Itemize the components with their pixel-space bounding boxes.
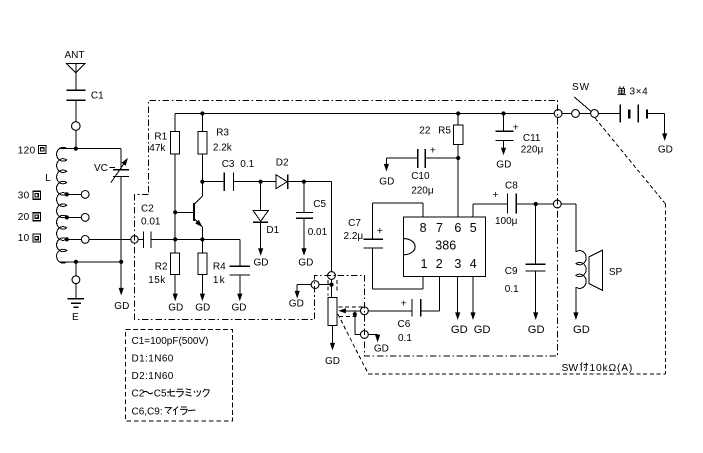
svg-text:220μ: 220μ [411,186,434,197]
svg-text:30: 30 [18,191,30,202]
svg-text:D1: D1 [266,225,279,236]
svg-text:2.2k: 2.2k [213,142,233,153]
svg-text:R4: R4 [213,262,226,273]
svg-text:GD: GD [232,303,247,314]
svg-text:GD: GD [254,258,269,269]
svg-text:GD: GD [573,324,590,336]
svg-text:GD: GD [474,324,491,336]
svg-text:47k: 47k [149,143,166,154]
svg-text:+: + [377,225,383,237]
svg-text:R2: R2 [155,262,168,273]
svg-text:SW: SW [572,82,590,93]
svg-text:GD: GD [379,177,394,188]
svg-text:C8: C8 [505,180,518,191]
svg-text:10kΩ(A): 10kΩ(A) [590,363,634,374]
svg-text:2.2μ: 2.2μ [344,231,364,242]
svg-text:GD: GD [528,324,545,336]
svg-text:3×4: 3×4 [630,86,649,97]
svg-text:C6: C6 [398,319,411,330]
svg-text:D2: D2 [276,158,289,169]
svg-text:C6,C9:: C6,C9: [132,406,163,417]
svg-text:SW: SW [562,363,579,374]
svg-text:L: L [45,173,51,184]
svg-text:+: + [513,121,519,133]
svg-text:22: 22 [419,126,431,137]
svg-text:8: 8 [420,221,427,235]
svg-text:15k: 15k [148,275,166,286]
svg-text:VC: VC [94,163,108,174]
svg-text:+: + [401,297,407,309]
svg-text:100μ: 100μ [495,216,518,227]
svg-text:C9: C9 [505,266,518,277]
svg-text:20: 20 [18,212,30,223]
svg-text:C11: C11 [523,133,541,144]
svg-text:R1: R1 [154,131,167,142]
svg-text:D2:1N60: D2:1N60 [132,371,174,382]
svg-text:10: 10 [18,233,30,244]
svg-text:C1=100pF(500V): C1=100pF(500V) [132,336,209,347]
svg-text:GD: GD [298,258,313,269]
svg-text:C10: C10 [411,171,430,182]
svg-text:0.01: 0.01 [141,217,161,228]
svg-text:+: + [430,145,436,157]
svg-text:120: 120 [18,145,36,156]
svg-text:C5:: C5: [154,388,170,399]
svg-text:GD: GD [374,344,389,355]
svg-text:2: 2 [436,257,443,271]
svg-text:D1:1N60: D1:1N60 [132,353,174,364]
svg-text:386: 386 [435,239,456,253]
svg-text:220μ: 220μ [521,145,544,156]
svg-text:GD: GD [451,324,468,336]
svg-text:0.1: 0.1 [240,159,254,170]
svg-text:GD: GD [325,356,340,367]
svg-text:7: 7 [436,221,443,235]
svg-text:6: 6 [454,221,461,235]
svg-text:R5: R5 [438,126,451,137]
svg-text:4: 4 [470,257,477,271]
svg-text:0.01: 0.01 [308,227,328,238]
svg-text:C3: C3 [222,159,235,170]
svg-text:GD: GD [114,301,129,312]
svg-text:E: E [72,312,79,323]
svg-text:R3: R3 [216,127,229,138]
svg-text:ANT: ANT [65,50,85,61]
svg-text:3: 3 [454,257,461,271]
svg-text:SP: SP [609,267,623,278]
svg-text:5: 5 [470,221,477,235]
svg-text:GD: GD [658,145,673,156]
svg-text:1: 1 [421,257,428,271]
svg-text:GD: GD [195,303,210,314]
svg-text:C2: C2 [141,203,154,214]
svg-text:C1: C1 [91,91,104,102]
svg-text:1k: 1k [213,275,226,286]
svg-text:C7: C7 [348,218,361,229]
svg-text:GD: GD [496,160,511,171]
svg-text:0.1: 0.1 [505,284,519,295]
svg-text:C5: C5 [313,199,326,210]
svg-text:GD: GD [289,299,304,310]
svg-text:C2: C2 [132,388,145,399]
svg-text:0.1: 0.1 [398,333,412,344]
svg-text:GD: GD [168,303,183,314]
svg-text:+: + [492,189,498,201]
